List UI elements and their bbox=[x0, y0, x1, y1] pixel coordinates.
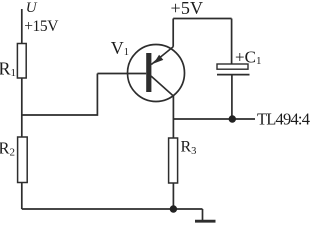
transistor V1 emitter diagonal bbox=[151, 47, 173, 65]
svg-text:+5V: +5V bbox=[171, 0, 204, 18]
wire emitter to +5V rail bbox=[172, 19, 174, 47]
resistor R2 bbox=[18, 137, 28, 183]
wire divider tap bbox=[22, 74, 98, 116]
junction dot at ground bus bbox=[170, 205, 177, 212]
ground bbox=[195, 220, 216, 223]
svg-text:TL494:4: TL494:4 bbox=[257, 110, 310, 129]
junction dot at capacitor node bbox=[229, 115, 236, 122]
capacitor C1 top plate bbox=[217, 64, 248, 69]
capacitor C1 bottom plate bbox=[217, 74, 250, 76]
transistor V1 collector diagonal bbox=[151, 76, 173, 96]
wire R3 to ground bus bbox=[172, 183, 174, 209]
transistor V1 arrow head bbox=[153, 55, 163, 64]
wire base bbox=[97, 73, 146, 75]
wire node to TL494 bbox=[173, 118, 255, 120]
svg-text:+15V: +15V bbox=[24, 18, 59, 35]
wire left rail bottom bbox=[21, 183, 23, 210]
wire left rail middle bbox=[21, 78, 23, 137]
svg-text:U: U bbox=[26, 0, 38, 16]
wire +5V rail bbox=[173, 18, 231, 20]
wire bottom ground bus bbox=[22, 208, 203, 210]
wire left rail top bbox=[21, 9, 23, 44]
wire collector down bbox=[172, 96, 174, 138]
transistor V1 base bar bbox=[146, 53, 151, 92]
resistor R3 bbox=[169, 138, 178, 183]
wire capacitor drop bbox=[231, 19, 233, 65]
resistor R1 bbox=[17, 44, 26, 79]
transistor Q/V1 circle bbox=[128, 45, 185, 102]
wire capacitor to node bbox=[231, 75, 233, 119]
wire ground drop bbox=[202, 209, 204, 221]
